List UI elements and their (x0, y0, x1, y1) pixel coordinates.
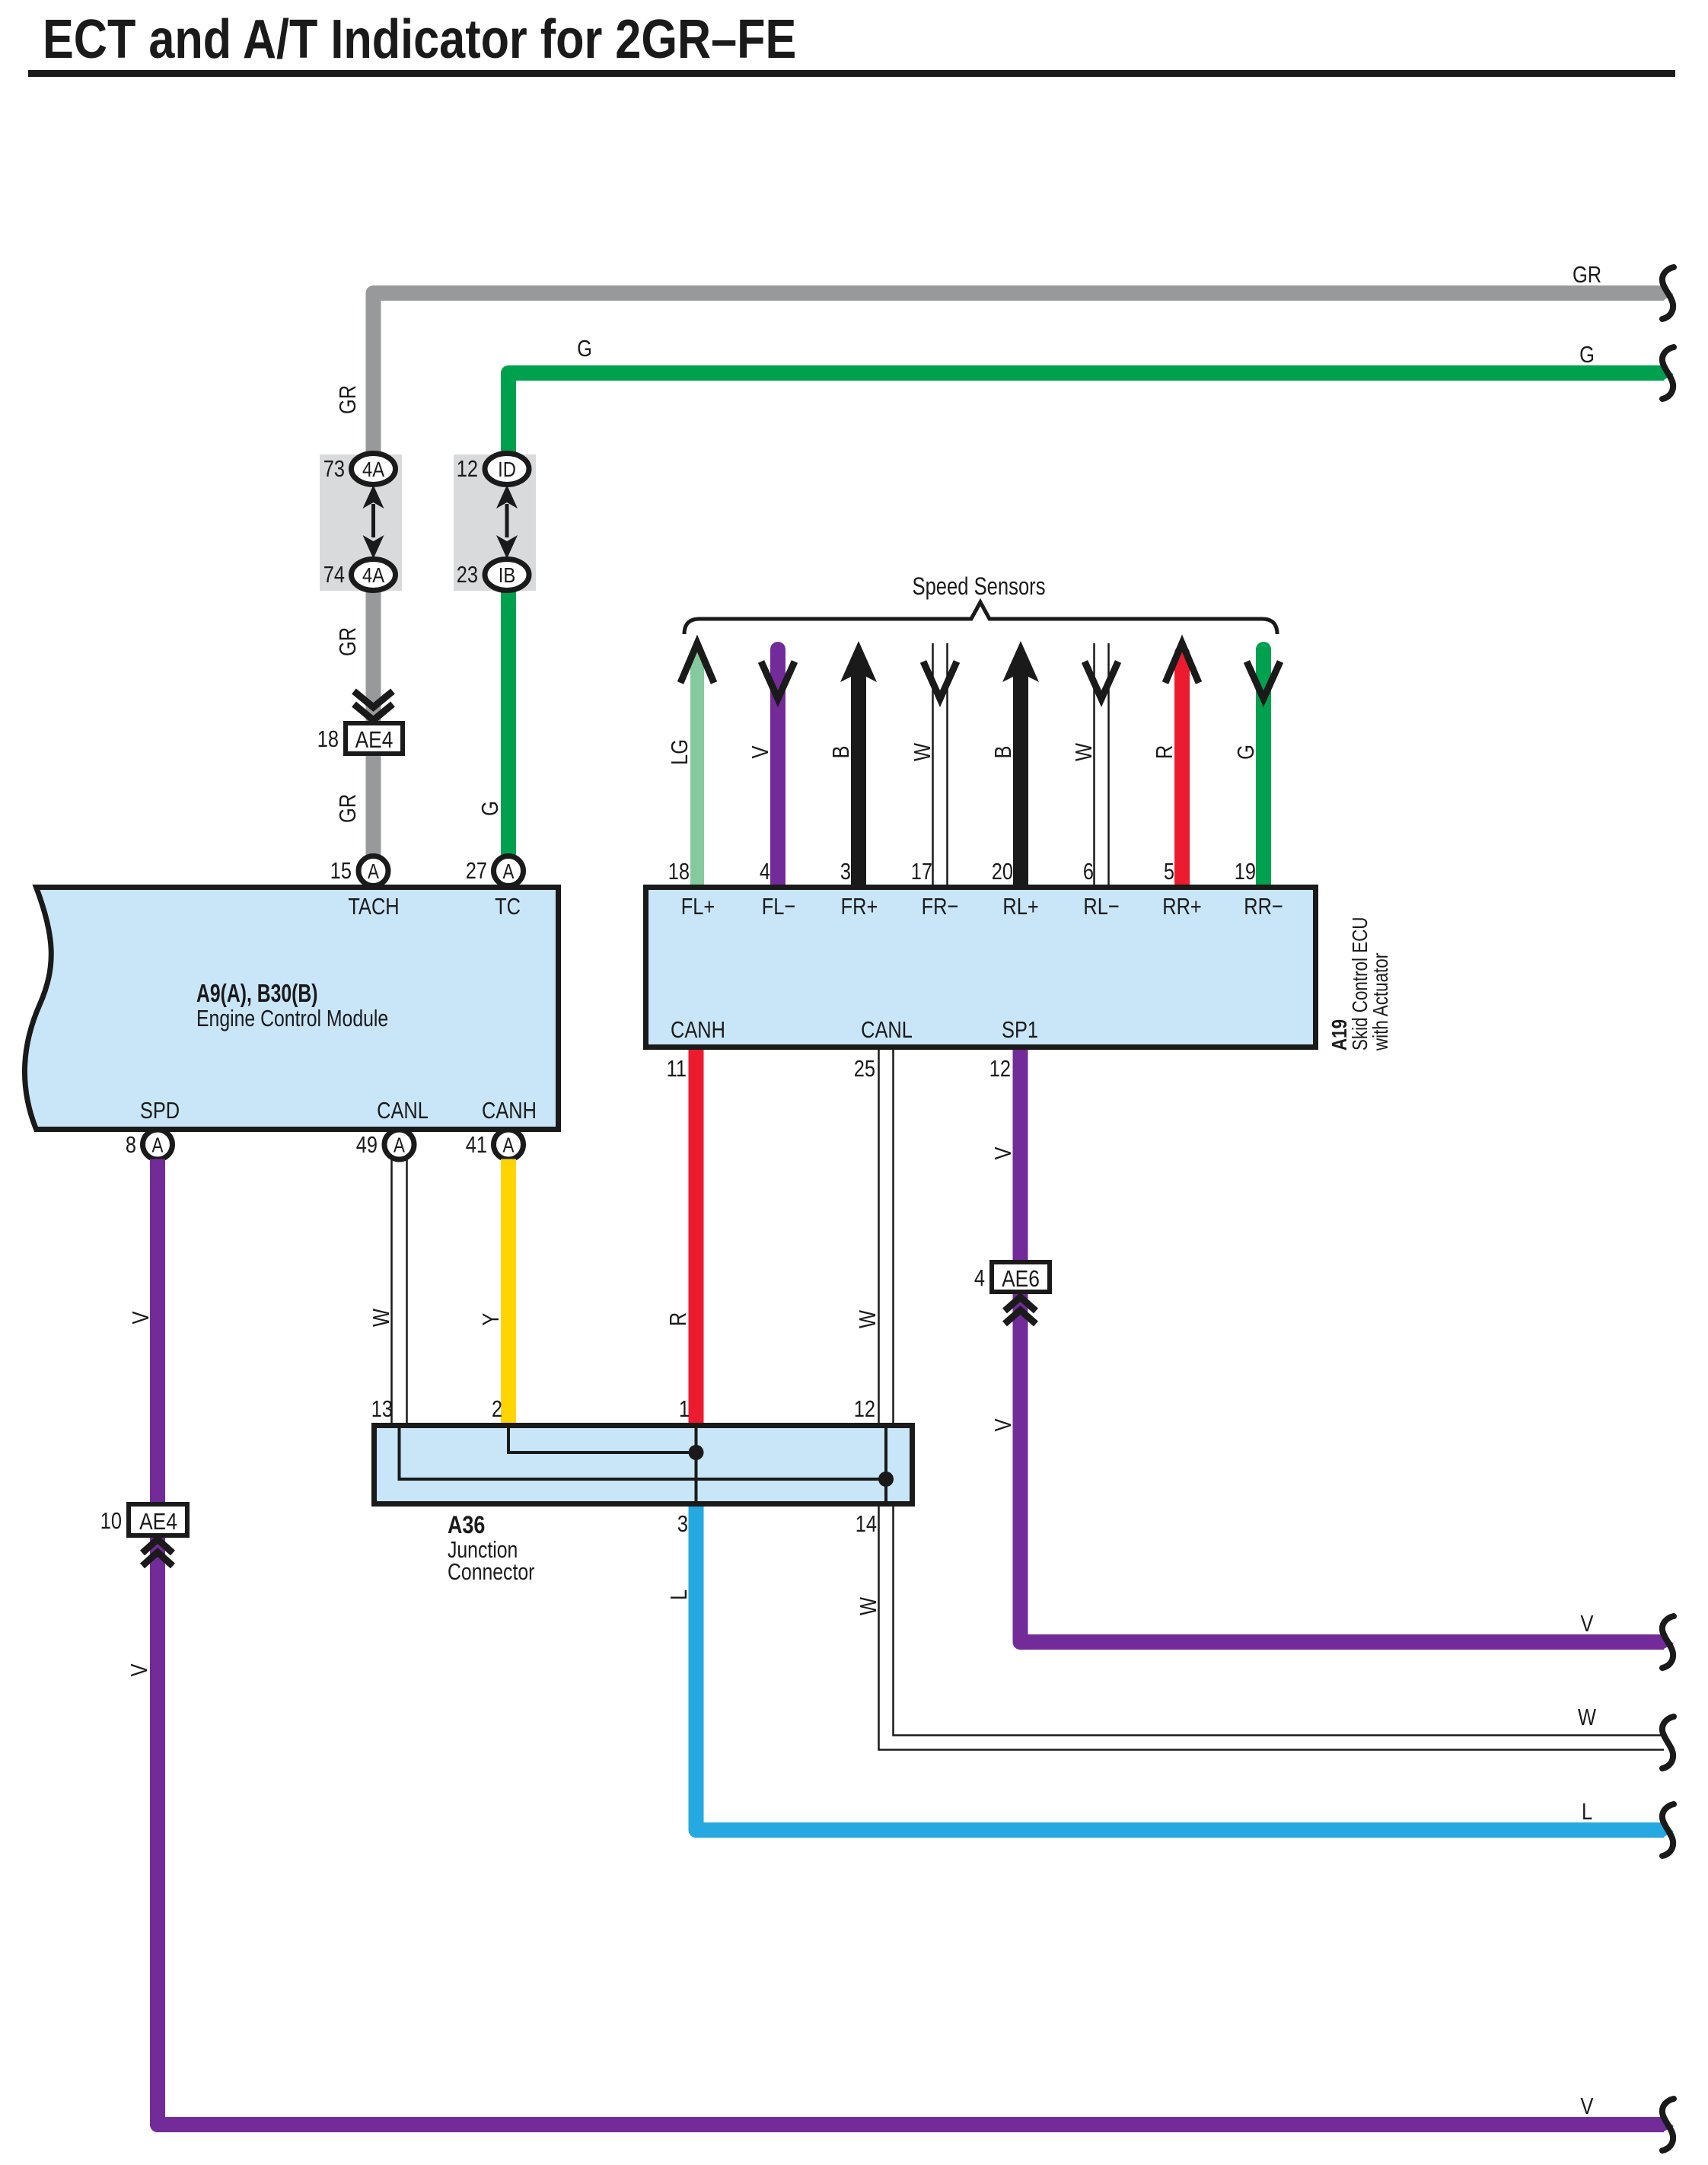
svg-text:73: 73 (323, 456, 345, 483)
svg-text:TACH: TACH (348, 894, 399, 920)
connector box 18 AE4 (317, 723, 403, 754)
svg-text:Y: Y (478, 1312, 505, 1325)
arrow up FL+ (680, 643, 714, 683)
svg-text:4A: 4A (362, 563, 385, 587)
svg-text:W: W (368, 1309, 395, 1327)
gray connector block 73/74 (4A) background (320, 454, 402, 591)
svg-text:W: W (910, 743, 936, 761)
svg-text:RL+: RL+ (1002, 894, 1038, 920)
svg-text:V: V (1581, 1611, 1594, 1637)
svg-text:IB: IB (499, 563, 515, 587)
svg-text:L: L (1582, 1799, 1592, 1825)
A36 internal bus lines (400, 1427, 894, 1503)
wire GR (gray) from ECM TACH up and right to break (374, 293, 1665, 472)
svg-text:74: 74 (323, 562, 345, 588)
svg-text:G: G (477, 801, 504, 816)
svg-text:14: 14 (856, 1511, 877, 1538)
svg-text:12: 12 (854, 1396, 875, 1423)
junction dot on CANL bus (878, 1471, 894, 1487)
svg-text:12: 12 (989, 1056, 1011, 1082)
A36 Junction Connector box (374, 1426, 913, 1504)
wire break squiggle GR (1662, 267, 1674, 319)
svg-text:12: 12 (457, 456, 478, 483)
svg-text:TC: TC (495, 894, 521, 920)
svg-text:11: 11 (667, 1056, 687, 1082)
svg-text:5: 5 (1164, 859, 1174, 885)
gray connector block 12/23 (ID/IB) background (454, 454, 536, 591)
ECM terminal 8 A (126, 1130, 173, 1159)
ECM box A9(A) B30(B) Engine Control Module (24, 888, 558, 1130)
wire break squiggle L (1662, 1804, 1674, 1856)
svg-text:2: 2 (492, 1396, 502, 1423)
svg-text:8: 8 (126, 1132, 136, 1159)
svg-text:25: 25 (854, 1056, 875, 1082)
svg-text:GR: GR (335, 627, 362, 656)
svg-text:W: W (855, 1310, 881, 1328)
svg-text:FL+: FL+ (681, 894, 715, 920)
svg-text:AE4: AE4 (355, 727, 394, 753)
arrow down FL- (761, 662, 795, 699)
wire break squiggle G (1662, 347, 1674, 399)
connector oval 12 ID (457, 454, 529, 485)
svg-text:CANH: CANH (482, 1098, 537, 1124)
svg-text:Connector: Connector (448, 1558, 534, 1584)
svg-text:GR: GR (335, 794, 362, 823)
svg-text:Engine Control Module: Engine Control Module (196, 1005, 388, 1031)
svg-text:V: V (128, 1311, 155, 1324)
double chevron up below AE6 (1005, 1297, 1036, 1324)
svg-text:27: 27 (466, 858, 487, 885)
svg-text:3: 3 (677, 1511, 688, 1538)
mating arrows between ID and IB (496, 485, 518, 559)
svg-text:ECT and A/T Indicator for 2GR–: ECT and A/T Indicator for 2GR–FE (43, 9, 796, 70)
arrow down RR- (1247, 662, 1280, 699)
svg-text:SPD: SPD (140, 1098, 180, 1124)
svg-text:SP1: SP1 (1002, 1017, 1038, 1044)
ECM terminal 41 A (466, 1130, 524, 1159)
svg-text:A: A (368, 860, 379, 884)
svg-text:13: 13 (371, 1396, 393, 1423)
svg-text:A: A (152, 1134, 164, 1157)
svg-text:R: R (1152, 745, 1178, 759)
svg-text:A: A (503, 1134, 515, 1157)
svg-text:with Actuator: with Actuator (1369, 952, 1393, 1051)
wire FR+ B (851, 662, 866, 885)
svg-text:RL−: RL− (1083, 894, 1119, 920)
wire V SPD from ECM 8 down (158, 1159, 1664, 2125)
ECM terminal 27 A (466, 856, 524, 886)
svg-text:B: B (828, 746, 855, 759)
ECM terminal 49 A (356, 1130, 414, 1159)
svg-text:FR−: FR− (922, 894, 959, 920)
svg-text:4: 4 (974, 1265, 985, 1292)
svg-text:G: G (1233, 745, 1260, 760)
svg-text:1: 1 (679, 1396, 690, 1423)
svg-text:G: G (577, 336, 592, 362)
wire break squiggle V SPD (1662, 2099, 1674, 2151)
wire break squiggle V SP1 (1662, 1616, 1674, 1668)
svg-text:ID: ID (498, 457, 516, 481)
svg-text:W: W (856, 1597, 882, 1615)
connector oval 73 4A (323, 454, 396, 485)
arrow up RR+ (1165, 643, 1199, 683)
svg-text:L: L (666, 1589, 693, 1600)
svg-text:19: 19 (1235, 859, 1256, 885)
wire G (green) from ECM TC up and right to break (508, 373, 1664, 472)
svg-text:A9(A), B30(B): A9(A), B30(B) (196, 980, 317, 1008)
title rule (28, 70, 1675, 77)
svg-text:23: 23 (457, 562, 478, 588)
svg-text:V: V (990, 1418, 1017, 1431)
svg-text:4: 4 (760, 859, 770, 885)
wire GR segment below oval 74 (366, 588, 381, 856)
svg-text:V: V (747, 745, 774, 758)
svg-text:W: W (1071, 743, 1098, 761)
wire R CANH from A19 down (689, 1050, 704, 1424)
connector oval 74 4A (323, 560, 396, 591)
svg-text:R: R (665, 1312, 692, 1326)
svg-text:A36: A36 (448, 1512, 485, 1539)
svg-text:B: B (990, 746, 1017, 759)
wire FR- W double line (933, 643, 948, 885)
connector oval 23 IB (457, 560, 529, 591)
brace over speed sensor wires (684, 602, 1277, 634)
svg-text:4A: 4A (362, 457, 385, 481)
svg-text:3: 3 (840, 859, 851, 885)
svg-text:10: 10 (100, 1508, 122, 1535)
svg-text:CANL: CANL (377, 1098, 429, 1124)
svg-text:G: G (1579, 342, 1595, 368)
wire W from A36 pin14 down right to break (879, 1507, 1665, 1750)
wire G segment below oval IB (501, 588, 516, 856)
svg-text:CANL: CANL (861, 1017, 913, 1044)
double chevron up below AE4 (142, 1539, 173, 1566)
arrow down RL- (1085, 662, 1118, 699)
svg-text:6: 6 (1083, 859, 1094, 885)
svg-text:V: V (1581, 2093, 1594, 2120)
svg-text:20: 20 (992, 859, 1013, 885)
svg-text:Speed Sensors: Speed Sensors (912, 573, 1045, 600)
svg-text:LG: LG (667, 739, 693, 765)
wire RR+ R (1174, 653, 1190, 885)
wire RL+ B (1013, 662, 1028, 885)
connector box 4 AE6 (974, 1262, 1050, 1293)
wire break squiggle W (1662, 1717, 1674, 1768)
wire W CANL from ECM 49 down (392, 1159, 407, 1424)
wire end taper L (1662, 1822, 1674, 1838)
svg-text:GR: GR (335, 385, 362, 414)
wire W CANL from A19 down (879, 1050, 894, 1423)
svg-text:V: V (126, 1663, 153, 1676)
svg-text:RR+: RR+ (1162, 894, 1202, 920)
svg-text:49: 49 (356, 1132, 378, 1159)
wire end taper GR (1662, 285, 1674, 301)
wire FL- V (770, 649, 785, 885)
svg-text:V: V (990, 1146, 1017, 1159)
arrow down FR- (923, 662, 957, 699)
svg-text:AE6: AE6 (1002, 1266, 1040, 1292)
wire end taper G (1662, 365, 1674, 381)
svg-text:AE4: AE4 (139, 1509, 177, 1535)
svg-text:17: 17 (911, 859, 932, 885)
wire RL- W double line (1095, 643, 1109, 885)
svg-text:W: W (1578, 1704, 1596, 1731)
svg-text:FR+: FR+ (841, 894, 878, 920)
svg-text:A: A (394, 1134, 405, 1157)
wire L from A36 pin3 down right to break (696, 1507, 1665, 1830)
wire RR- G (1256, 649, 1271, 885)
svg-text:A: A (503, 860, 515, 884)
wire end taper V SP1 (1662, 1634, 1674, 1650)
arrow up RL+ solid (1002, 641, 1039, 682)
mating arrows between 73 and 74 (363, 485, 384, 559)
svg-text:15: 15 (330, 858, 352, 885)
wire V SP1 from A19 down right to break (1021, 1050, 1665, 1642)
wire Y CANH from ECM 41 down (501, 1159, 516, 1425)
svg-text:RR−: RR− (1244, 894, 1283, 920)
svg-text:41: 41 (466, 1132, 487, 1159)
svg-text:18: 18 (317, 726, 339, 753)
wire FL+ LG (690, 653, 704, 885)
junction dot on CANH bus (689, 1445, 704, 1460)
svg-text:18: 18 (668, 859, 690, 885)
svg-text:GR: GR (1573, 262, 1601, 289)
connector box 10 AE4 (100, 1504, 187, 1535)
svg-text:CANH: CANH (671, 1017, 725, 1044)
double chevron down above AE4 (18) (354, 691, 393, 720)
wire end taper V SPD (1662, 2117, 1674, 2132)
A19 Skid Control ECU box (646, 888, 1316, 1047)
arrow up FR+ solid (840, 641, 877, 682)
ECM terminal 15 A (330, 856, 388, 886)
svg-text:FL−: FL− (762, 894, 795, 920)
